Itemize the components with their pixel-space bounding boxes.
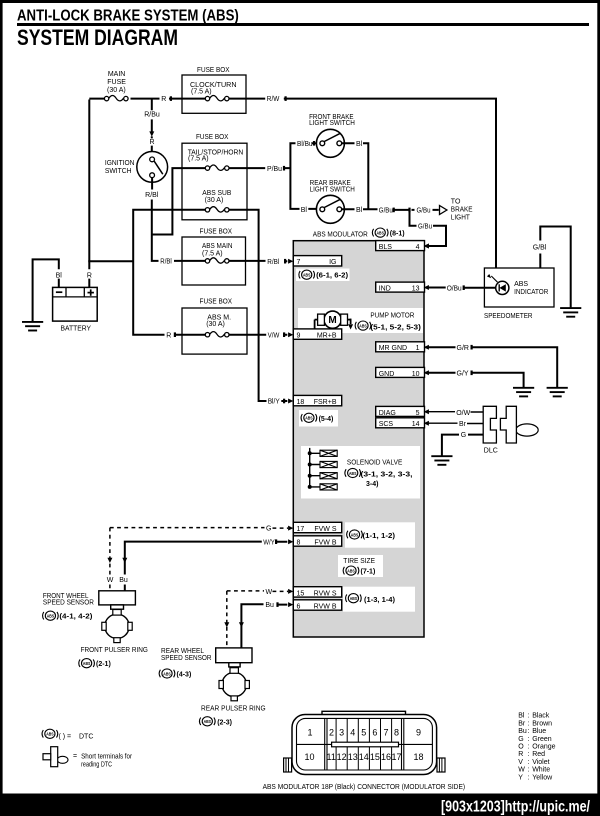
svg-text:FSR+B: FSR+B [314, 399, 337, 406]
svg-text:Blue: Blue [532, 728, 546, 735]
battery [53, 287, 98, 321]
svg-text:R/Bl: R/Bl [160, 259, 172, 266]
junction tick after O/Bu [463, 285, 465, 290]
fuse box 2 TAIL/STOP/HORN + ABS SUB [182, 143, 247, 220]
pump motor symbol [315, 311, 351, 330]
wire: battery horizontal to fuse feed vertical [88, 260, 133, 262]
svg-text:SPEED SENSOR: SPEED SENSOR [43, 599, 94, 606]
svg-text:MR GND: MR GND [379, 345, 407, 352]
svg-text:White: White [532, 767, 550, 774]
DLC connector right half with loop [500, 406, 538, 443]
junction tick after R/W label [285, 96, 287, 101]
junction tick after G/R [471, 345, 473, 350]
svg-text:FUSE BOX: FUSE BOX [200, 298, 233, 305]
svg-text:O: O [518, 744, 524, 751]
terminal box 8 FVW B [293, 536, 341, 547]
arrow at MR GND [424, 345, 429, 350]
svg-text:Y: Y [518, 774, 523, 781]
ground (DLC G) [431, 456, 452, 465]
svg-text:(1-1, 1-2): (1-1, 1-2) [363, 533, 396, 540]
white patch pump motor [298, 308, 423, 333]
svg-text::: : [528, 720, 530, 727]
svg-text:SPEED SENSOR: SPEED SENSOR [161, 655, 212, 662]
wire: SCS to DLC Br [426, 422, 484, 424]
arrow into FSR+B [288, 399, 293, 404]
svg-text:3: 3 [339, 727, 344, 737]
wire: ignition output R/Bl down [152, 178, 206, 261]
rear sensor tab [229, 663, 240, 667]
svg-text:REAR WHEEL: REAR WHEEL [161, 648, 204, 655]
svg-text:Brown: Brown [532, 720, 552, 727]
page border frame right [597, 0, 600, 796]
svg-text:Br: Br [518, 720, 526, 727]
ABS symbol (6-1,6-2) [299, 270, 314, 279]
wire: G/Bu branch down to BLS [409, 210, 448, 246]
svg-text:G: G [266, 526, 271, 533]
svg-text:10: 10 [412, 371, 420, 378]
wire: rear switch output G/Bu run [342, 208, 439, 211]
ABS symbol (7-1) [343, 566, 358, 575]
arrow into FVW S [288, 526, 293, 531]
wire: IND to speedometer LED [426, 287, 496, 289]
rear wheel speed sensor box [216, 648, 252, 663]
svg-text:RVW B: RVW B [314, 603, 337, 610]
fuse box 3 ABS MAIN [182, 237, 246, 285]
solenoid valve 3 [320, 473, 337, 479]
terminal box GND 10 [376, 367, 425, 377]
arrow into BLS box edge [424, 244, 429, 249]
junction tick after V/W [283, 332, 285, 337]
wire: R/W run from clock/turn output to speedometer drop [229, 98, 496, 268]
white patch (5-4) [299, 410, 338, 427]
svg-text:Br: Br [459, 421, 467, 428]
ignition switch [137, 152, 168, 183]
svg-text::: : [528, 767, 530, 774]
ABS symbol (5-1,5-2,5-3) [355, 321, 370, 330]
svg-text:(1-3, 1-4): (1-3, 1-4) [364, 597, 395, 604]
junction tick after R/Bl output [284, 259, 286, 264]
svg-text:MR+B: MR+B [317, 333, 337, 340]
arrow into IG [288, 259, 293, 264]
svg-text:M: M [328, 315, 336, 326]
white patch TIRE SIZE [338, 555, 383, 577]
svg-text:1: 1 [307, 727, 312, 737]
svg-text:G: G [461, 432, 466, 439]
terminal box SCS 14 [376, 418, 425, 428]
terminal box 7 IG [293, 256, 341, 267]
arrow into RVW S [288, 589, 293, 594]
ABS symbol (1-1,1-2) [347, 530, 362, 539]
svg-text:V: V [518, 759, 523, 766]
svg-text:(7.5 A): (7.5 A) [202, 251, 223, 258]
ABS symbol (4-3) [159, 669, 174, 678]
wire: W/Y solid to FVW B [125, 541, 287, 591]
wire: main top wire from left corner to clock/turn fuse box [89, 98, 205, 100]
ABS symbol (5-4) [301, 413, 316, 422]
svg-text:SCS: SCS [379, 421, 394, 428]
wire: brake switch feed vertical [289, 143, 320, 210]
connector divider before 9 (double) [402, 718, 404, 770]
bottom watermark bar [0, 794, 600, 816]
DTC legend ABS symbol [42, 729, 57, 738]
svg-text::: : [528, 751, 530, 758]
svg-text:GND: GND [379, 371, 395, 378]
wire: ignition feed vertical from top wire [151, 99, 153, 157]
title underline [17, 23, 589, 26]
svg-text:ABS MODULATOR: ABS MODULATOR [313, 231, 368, 238]
svg-text:(2-1): (2-1) [96, 661, 111, 668]
DLC connector left half [483, 406, 496, 443]
svg-text:1: 1 [416, 345, 420, 352]
ground (battery) [22, 322, 43, 331]
wire: Bl/Bu label to front switch [312, 142, 320, 144]
junction tick after Bu rear [276, 602, 278, 607]
ABS indicator LED [487, 274, 509, 295]
svg-text:14: 14 [412, 421, 420, 428]
svg-text:Bl: Bl [56, 273, 63, 280]
arrow on front dashed wire [107, 558, 112, 563]
terminal box 17 FVW S [293, 522, 341, 533]
front pulser ring [102, 610, 132, 643]
svg-text:BLS: BLS [379, 244, 393, 251]
fuse box 4 ABS M. [182, 308, 247, 354]
ABS modulator box [293, 241, 424, 637]
svg-text::: : [528, 759, 530, 766]
svg-text:Yellow: Yellow [532, 774, 553, 781]
svg-text:FUSE BOX: FUSE BOX [196, 134, 229, 141]
main fuse MAIN FUSE (30 A) [104, 96, 128, 101]
svg-text:IGNITION: IGNITION [105, 160, 135, 167]
arrow into RVW B [288, 602, 293, 607]
fuse box 1 CLOCK/TURN [182, 75, 246, 113]
arrow down from pump motor [348, 324, 353, 329]
front sensor tab [111, 605, 124, 609]
svg-text:(2-3): (2-3) [217, 720, 232, 727]
svg-text:8: 8 [297, 539, 301, 546]
svg-text:12: 12 [337, 752, 347, 762]
svg-text:( ) =: ( ) = [59, 733, 72, 740]
ground (G/Bl speedometer) [560, 308, 581, 317]
svg-text:17: 17 [297, 526, 305, 533]
svg-text:6: 6 [372, 727, 377, 737]
color code legend [518, 713, 555, 782]
svg-text:6: 6 [297, 603, 301, 610]
fuse ABS M. 30A [205, 332, 229, 337]
svg-text:G/Y: G/Y [457, 371, 469, 378]
svg-text:Bl: Bl [356, 141, 363, 148]
svg-text:(4-3): (4-3) [177, 671, 192, 678]
svg-text:17: 17 [391, 752, 401, 762]
terminal box MR GND 1 [376, 342, 425, 352]
arrow into BLS [424, 244, 429, 249]
ground (G/Y) [513, 388, 534, 397]
connector divider after 1 (double) [325, 718, 327, 770]
junction tick after R label on top wire [170, 96, 172, 101]
svg-text:W: W [266, 589, 273, 596]
svg-text:Black: Black [532, 713, 550, 720]
arrow at IND [424, 285, 429, 290]
terminal box 6 RVW B [293, 600, 341, 611]
solenoid valve 1 [320, 450, 337, 456]
connector key bar [332, 742, 399, 747]
svg-text:R/W: R/W [267, 96, 280, 103]
svg-text:15: 15 [297, 590, 305, 597]
arrow down on ignition feed [149, 131, 154, 136]
wire: W dashed rear to RVW S [227, 591, 288, 648]
solenoid valve stubs [310, 453, 320, 487]
svg-text:3-4): 3-4) [366, 481, 378, 488]
junction tick at G/Bu branch [408, 208, 410, 213]
svg-text:Bl/Bu: Bl/Bu [297, 141, 313, 148]
svg-text:reading DTC: reading DTC [81, 761, 112, 768]
ABS symbol (2-1) [79, 659, 94, 668]
svg-text:(8-1): (8-1) [390, 231, 405, 238]
svg-text:PUMP MOTOR: PUMP MOTOR [370, 313, 414, 320]
svg-text:(5-4): (5-4) [319, 416, 334, 423]
svg-text:9: 9 [297, 333, 301, 340]
connector left ear [284, 758, 292, 772]
solenoid valve 2 [320, 461, 337, 467]
svg-text::: : [528, 774, 530, 781]
arrow into MR+B [288, 332, 293, 337]
wire: DLC G to ground [442, 434, 483, 456]
svg-text:Orange: Orange [532, 744, 555, 751]
svg-text:ABS MODULATOR 18P (Black) CONN: ABS MODULATOR 18P (Black) CONNECTOR (MOD… [263, 784, 466, 791]
terminal box IND 13 [376, 282, 425, 292]
svg-text:(7.5 A): (7.5 A) [191, 89, 212, 96]
rear pulser ring [219, 668, 249, 701]
page border frame top [0, 0, 600, 3]
svg-text:(3-1, 3-2, 3-3,: (3-1, 3-2, 3-3, [361, 472, 413, 479]
connector right ear [437, 758, 445, 772]
svg-text:9: 9 [416, 727, 421, 737]
white patch (6-1,6-2) [296, 269, 350, 282]
svg-text:(7-1): (7-1) [361, 569, 376, 576]
wire: dogleg from ignition to tail/stop fuse [152, 167, 206, 235]
svg-text:2: 2 [329, 727, 334, 737]
wire: GND to ground G/Y [426, 372, 524, 387]
ABS symbol (4-1,4-2) [43, 611, 58, 620]
terminal box BLS 4 [376, 241, 425, 251]
svg-text:R/Bl: R/Bl [267, 259, 279, 266]
svg-text:ABS MAIN: ABS MAIN [202, 243, 233, 250]
wire: G/Bl from speedometer up and to ground [539, 226, 570, 308]
wire: tail/stop output to brake switch node [229, 167, 290, 169]
svg-text:DTC: DTC [79, 733, 93, 740]
svg-text:G: G [518, 736, 523, 743]
18P connector [284, 711, 445, 774]
wire: MR GND to ground G/R [426, 346, 558, 387]
svg-text:R/Bu: R/Bu [144, 112, 160, 119]
svg-text:Bu: Bu [265, 602, 274, 609]
svg-text:(7.5 A): (7.5 A) [188, 155, 209, 162]
fuse CLOCK/TURN 7.5A [205, 96, 229, 101]
arrow at DIAG [424, 409, 429, 414]
ABS symbol (1-3,1-4) [346, 594, 361, 603]
svg-text:(30 A): (30 A) [107, 87, 126, 94]
connector outer shell [292, 715, 437, 775]
svg-text:13: 13 [348, 752, 358, 762]
svg-text:P/Bu: P/Bu [267, 166, 282, 173]
svg-text::: : [528, 713, 530, 720]
svg-text:V/W: V/W [268, 332, 280, 339]
svg-text:MAIN: MAIN [108, 71, 126, 78]
svg-text:SOLENOID VALVE: SOLENOID VALVE [347, 460, 403, 467]
page border frame left [0, 0, 3, 796]
connector inner shell [297, 718, 433, 770]
svg-text:Red: Red [532, 751, 545, 758]
terminal box 9 MR+B [293, 329, 341, 340]
svg-text:BRAKE: BRAKE [451, 206, 473, 213]
arrow TO BRAKE LIGHT (open) [440, 206, 447, 215]
svg-text:FUSE BOX: FUSE BOX [197, 67, 230, 74]
svg-text:DLC: DLC [484, 448, 498, 455]
svg-text:SWITCH: SWITCH [105, 168, 132, 175]
svg-text:SPEEDOMETER: SPEEDOMETER [484, 313, 533, 320]
arrow at GND [424, 370, 429, 375]
wire: G dashed to FVW S [110, 527, 288, 530]
arrow at SCS [424, 421, 429, 426]
svg-text:LIGHT: LIGHT [451, 214, 471, 221]
junction tick after W/Y [275, 539, 277, 544]
ABS symbol (2-3) [200, 717, 215, 726]
svg-text:[903x1203]http://upic.me/: [903x1203]http://upic.me/ [441, 799, 590, 816]
svg-text:R: R [149, 139, 154, 146]
wire: battery feed vertical x=133 (ABS SUB + ABS M) [132, 209, 205, 335]
svg-text:(6-1, 6-2): (6-1, 6-2) [316, 273, 348, 280]
svg-text:FVW B: FVW B [314, 539, 336, 546]
svg-text:G/R: G/R [457, 345, 469, 352]
arrow on rear dashed wire [224, 622, 229, 627]
connector top ridge [322, 711, 406, 719]
svg-text:7: 7 [383, 727, 388, 737]
terminal box DIAG 5 [376, 406, 425, 416]
svg-text:Bl: Bl [356, 207, 363, 214]
svg-text:7: 7 [297, 259, 301, 266]
svg-text:10: 10 [304, 752, 314, 762]
svg-text:(30 A): (30 A) [206, 321, 225, 328]
svg-text:R: R [161, 96, 166, 103]
svg-text:Bl: Bl [301, 207, 308, 214]
svg-text:FUSE: FUSE [107, 79, 126, 86]
wire: G dashed vertical to front sensor [109, 528, 111, 591]
svg-text:ANTI-LOCK BRAKE SYSTEM (ABS): ANTI-LOCK BRAKE SYSTEM (ABS) [17, 7, 239, 24]
svg-text:W: W [107, 577, 114, 584]
rear brake light switch [316, 195, 344, 223]
junction tick after G/Bu first [393, 208, 395, 213]
wire: Bu solid rear to RVW B [241, 603, 287, 648]
svg-text:Bl/Y: Bl/Y [268, 399, 280, 406]
svg-text:(4-1, 4-2): (4-1, 4-2) [59, 614, 92, 621]
arrow on front solid wire [122, 558, 127, 563]
svg-text:(30 A): (30 A) [205, 197, 224, 204]
junction tick after R label (ABS M input) [174, 332, 176, 337]
fuse ABS MAIN 7.5A [205, 258, 229, 263]
svg-text:DIAG: DIAG [379, 410, 396, 417]
svg-text:=: = [73, 753, 77, 760]
svg-text:4: 4 [350, 727, 355, 737]
connector pin dividers bottom [336, 744, 392, 770]
svg-text:G/Bu: G/Bu [418, 223, 432, 230]
svg-text:14: 14 [359, 752, 369, 762]
svg-text:R: R [518, 751, 523, 758]
svg-text:O/Bu: O/Bu [447, 286, 462, 293]
svg-text:18: 18 [297, 399, 305, 406]
svg-text:13: 13 [412, 286, 420, 293]
arrow into FVW B [288, 539, 293, 544]
battery negative wire Bl [33, 258, 60, 321]
svg-text:Green: Green [532, 736, 552, 743]
svg-text:G/Bl: G/Bl [533, 245, 547, 252]
svg-text:IG: IG [329, 259, 336, 266]
svg-text:8: 8 [394, 727, 399, 737]
fuse ABS SUB 30A [205, 207, 229, 212]
svg-text:LIGHT SWITCH: LIGHT SWITCH [310, 186, 355, 193]
svg-text:(5-1, 5-2, 5-3): (5-1, 5-2, 5-3) [370, 324, 421, 331]
svg-text:18: 18 [413, 752, 423, 762]
svg-text:Bu: Bu [119, 577, 128, 584]
wire: DIAG to DLC O/W [426, 411, 484, 413]
svg-text:TIRE SIZE: TIRE SIZE [343, 558, 375, 565]
solenoid valve 4 [320, 484, 337, 490]
wire: battery R vertical to main wire [88, 100, 90, 288]
white patch (1-3,1-4) [343, 587, 415, 612]
wire: front switch output to right vertical [342, 142, 369, 210]
svg-text:BATTERY: BATTERY [61, 325, 92, 332]
svg-text:FRONT PULSER RING: FRONT PULSER RING [81, 647, 148, 654]
junction tick after Bl/Bu [313, 141, 315, 146]
ground (G/R) [547, 388, 568, 397]
svg-text:11: 11 [327, 752, 336, 762]
svg-text::: : [528, 736, 530, 743]
arrow on rear solid wire [239, 622, 244, 627]
svg-text:INDICATOR: INDICATOR [514, 289, 548, 296]
svg-text:FUSE BOX: FUSE BOX [200, 228, 233, 235]
wire: ABS MAIN output to IG terminal [229, 260, 287, 262]
svg-text:O/W: O/W [456, 410, 470, 417]
svg-text:G/Bu: G/Bu [379, 207, 393, 214]
solenoid valve connecting line [309, 448, 311, 487]
wire: ABS M output to MR+B with junction at ABS SUB vertical [229, 334, 287, 336]
svg-text:Bu: Bu [518, 728, 527, 735]
fuse TAIL/STOP/HORN 7.5A [205, 165, 229, 170]
junction tick after G/Y [471, 371, 473, 376]
svg-text:Violet: Violet [532, 759, 549, 766]
svg-text:IND: IND [379, 286, 391, 293]
white patch (1-1,1-2) [345, 522, 415, 547]
svg-text:Short terminals for: Short terminals for [81, 754, 133, 761]
svg-text:W/Y: W/Y [263, 539, 275, 546]
junction tick after Bl/Y [283, 399, 285, 404]
svg-text:R: R [87, 273, 92, 280]
white patch solenoid valve [301, 446, 420, 499]
front wheel speed sensor box [99, 591, 136, 605]
wire: ABS SUB output down to FSR+B corner [229, 209, 287, 401]
short terminals symbol [43, 747, 68, 767]
svg-text:SYSTEM DIAGRAM: SYSTEM DIAGRAM [17, 25, 178, 50]
svg-text:R: R [166, 332, 171, 339]
speedometer box [484, 268, 554, 307]
svg-text:W: W [518, 767, 525, 774]
svg-text::: : [528, 728, 530, 735]
ABS symbol (8-1) [372, 228, 387, 237]
svg-text:R/Bl: R/Bl [145, 192, 159, 199]
svg-text:LIGHT SWITCH: LIGHT SWITCH [309, 120, 355, 127]
svg-text:G/Bu: G/Bu [417, 207, 431, 214]
ABS symbol (3-1..) [345, 468, 360, 477]
svg-text:16: 16 [381, 752, 391, 762]
svg-text:4: 4 [416, 244, 420, 251]
